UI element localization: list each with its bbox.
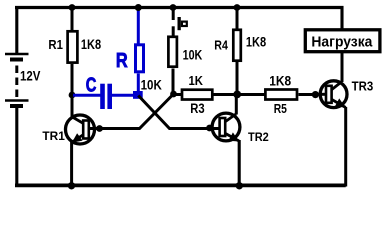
wire potentiometer bottom lead <box>172 69 175 95</box>
transistor TR3 <box>314 81 347 108</box>
svg-text:Нагрузка: Нагрузка <box>311 33 373 50</box>
wire battery to bottom rail <box>15 106 18 187</box>
node TR3 base <box>312 91 319 98</box>
node TR1 base <box>96 125 103 132</box>
node top rail / R4 <box>234 4 241 11</box>
svg-text:C: C <box>86 74 97 97</box>
node TR2 base <box>206 125 213 132</box>
svg-text:10K: 10K <box>141 76 162 92</box>
capacitor C (blue) <box>73 84 138 109</box>
svg-text:R: R <box>116 50 128 72</box>
wire TR3 collector up to load <box>341 53 344 82</box>
wire R1 bottom lead to TR1 collector <box>71 64 74 117</box>
node potentiometer / R3 / TR1 base <box>170 91 177 98</box>
node bottom rail / TR2 emitter <box>236 182 243 189</box>
node bottom rail / TR1 emitter <box>68 182 75 189</box>
svg-text:TR2: TR2 <box>248 130 269 144</box>
svg-text:1K8: 1K8 <box>81 36 101 52</box>
resistor 10K body (potentiometer) <box>168 37 177 67</box>
node top rail / R <box>135 4 142 11</box>
wire left vertical from top rail to battery <box>15 6 18 54</box>
wire bottom rail <box>15 183 346 187</box>
node R3 / R4 / R5 / TR2 collector <box>233 91 241 99</box>
wire top rail <box>15 6 344 9</box>
wire TR1 base to node (horizontal + diagonal) <box>97 94 174 129</box>
resistor R5 <box>237 90 315 100</box>
resistor R4 body <box>233 30 241 61</box>
transistor TR2 <box>210 113 240 141</box>
wire TR2 emitter to bottom rail <box>238 140 241 187</box>
load box (Нагрузка) <box>305 30 380 52</box>
node top rail / R1 <box>69 4 76 11</box>
wire TR1 emitter to bottom rail <box>70 142 73 187</box>
battery B1 12V <box>5 54 29 106</box>
wire R4 bottom lead <box>236 62 239 95</box>
wire top rail down to load <box>340 6 343 29</box>
wire R bottom lead (blue) <box>137 74 140 96</box>
svg-text:1K8: 1K8 <box>246 34 266 50</box>
node top rail / potentiometer <box>170 4 177 11</box>
svg-text:1K: 1K <box>189 73 204 88</box>
svg-text:10K: 10K <box>183 47 203 62</box>
wire potentiometer top lead <box>172 8 175 36</box>
svg-text:R5: R5 <box>274 101 287 116</box>
svg-text:R1: R1 <box>48 37 63 52</box>
svg-text:12V: 12V <box>20 68 41 84</box>
svg-text:TR3: TR3 <box>352 79 374 93</box>
wire R4 top lead <box>236 8 239 29</box>
potentiometer wiper mark b (label with white backing over wire) <box>170 17 189 30</box>
wire TR2 collector <box>235 95 238 115</box>
wire R top lead (blue) <box>137 8 140 45</box>
transistor TR1 <box>66 115 98 144</box>
wire C/R node to TR2 base (diagonal + horizontal) <box>138 96 210 129</box>
svg-text:TR1: TR1 <box>42 129 65 143</box>
svg-text:1K8: 1K8 <box>269 74 291 89</box>
resistor R body (blue) <box>136 45 144 72</box>
resistor R3 <box>173 90 237 100</box>
svg-text:R3: R3 <box>190 101 205 116</box>
node C / R / TR2 base (blue square) <box>133 91 143 99</box>
wire R1 top lead <box>71 8 74 32</box>
svg-text:R4: R4 <box>214 39 228 53</box>
resistor R1 body <box>68 31 78 62</box>
node R1 / capacitor C <box>69 92 76 99</box>
wire TR3 emitter to bottom rail <box>344 107 347 187</box>
